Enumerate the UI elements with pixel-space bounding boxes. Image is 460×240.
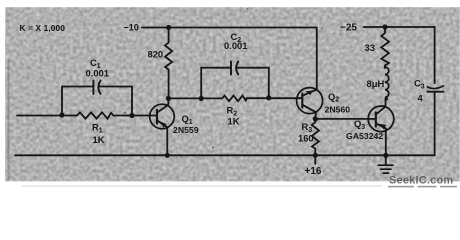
capacitor C1: [62, 87, 132, 116]
node Q1 emitter / rail: [165, 153, 170, 158]
node collector/820/R2: [166, 96, 171, 101]
svg-text:8μH: 8μH: [367, 78, 385, 89]
label 33 value: [365, 42, 375, 53]
resistor R3: [312, 119, 319, 155]
label C1 value: [86, 57, 109, 79]
node Q2 collector / R3 / Q3 base: [313, 116, 318, 121]
wire Q3 emitter down to rail: [385, 129, 387, 156]
scan speck: [124, 112, 126, 114]
wire R2 to Q2 base: [247, 97, 303, 99]
scan speck: [247, 8, 249, 10]
svg-text:4: 4: [418, 93, 424, 104]
svg-text:+16: +16: [305, 166, 322, 177]
wire input (left, to R1/C1 network): [17, 115, 77, 117]
bottom scan shadow line: [22, 186, 382, 187]
resistor R2: [222, 96, 247, 102]
resistor R1: [77, 112, 114, 118]
resistor 33: [381, 27, 389, 68]
wire Q3 collector up to coil: [385, 99, 387, 107]
label K = X 1,000: [20, 23, 66, 33]
wire ground rail (bottom): [15, 154, 435, 156]
wire -25 rail: [364, 27, 435, 83]
label Q3 GA53242: [346, 118, 383, 141]
svg-text:0.001: 0.001: [86, 68, 109, 79]
inductor 8uH: [385, 67, 389, 100]
paper background: [0, 0, 460, 190]
wire Q2 emitter up to -10 rail: [316, 88, 318, 90]
label +16: [305, 166, 322, 177]
transistor Q2 2N560: [297, 88, 323, 114]
wire Q1 collector to node: [167, 98, 170, 105]
scan speck: [321, 28, 323, 30]
svg-text:33: 33: [365, 42, 375, 53]
label 820 value: [148, 49, 164, 60]
label R1 value: [92, 122, 105, 145]
wire Q2 node to Q3 base: [315, 118, 376, 120]
scan speck: [37, 135, 39, 137]
node B (right of C1): [129, 113, 134, 118]
node left of C2: [199, 96, 204, 101]
svg-text:160: 160: [298, 132, 314, 143]
svg-text:2N559: 2N559: [173, 125, 199, 135]
svg-text:SeekIC.com: SeekIC.com: [389, 175, 453, 187]
svg-text:K = X 1,000: K = X 1,000: [20, 23, 66, 33]
capacitor C3: [428, 86, 444, 89]
label C2 value: [224, 31, 247, 51]
ground: [385, 155, 387, 165]
transistor Q1 2N559: [150, 104, 175, 129]
node -10/820 junction: [166, 25, 171, 30]
transistor Q3 GA53242: [368, 106, 394, 132]
scan speck: [212, 147, 214, 149]
label C3 value: [414, 78, 425, 104]
node right of C2: [266, 95, 271, 100]
left scan smudge: [8, 58, 10, 180]
svg-text:1K: 1K: [93, 134, 105, 145]
node R3 / rail: [313, 153, 318, 158]
svg-text:−25: −25: [340, 22, 357, 33]
svg-text:820: 820: [148, 49, 164, 60]
resistor 820: [165, 28, 172, 99]
wire R1 to Q1 base: [114, 115, 158, 117]
power label +16: [314, 155, 316, 164]
label R2 value: [227, 105, 240, 127]
power label -25: [340, 22, 357, 33]
svg-text:1K: 1K: [228, 116, 240, 127]
wire -10 rail: [142, 28, 317, 90]
svg-text:2N560: 2N560: [325, 105, 351, 115]
node -25/33 junction: [382, 24, 387, 29]
power label -10: [124, 23, 139, 33]
wire Q1 emitter down to ground rail: [166, 127, 168, 155]
svg-text:−10: −10: [124, 23, 139, 33]
svg-text:GA53242: GA53242: [346, 131, 383, 141]
node A (left of C1): [59, 112, 64, 117]
label Q1 2N559: [173, 113, 199, 135]
svg-text:0.001: 0.001: [224, 40, 247, 51]
wire Q2 collector down to node: [314, 112, 317, 119]
node Q3 emitter / rail / ground: [383, 153, 388, 158]
label 8uH value: [367, 78, 385, 89]
label Q2 2N560: [325, 91, 351, 115]
capacitor C2: [201, 68, 269, 99]
wire node to R2/C2 network: [168, 97, 222, 99]
label R3 value: [298, 121, 314, 143]
